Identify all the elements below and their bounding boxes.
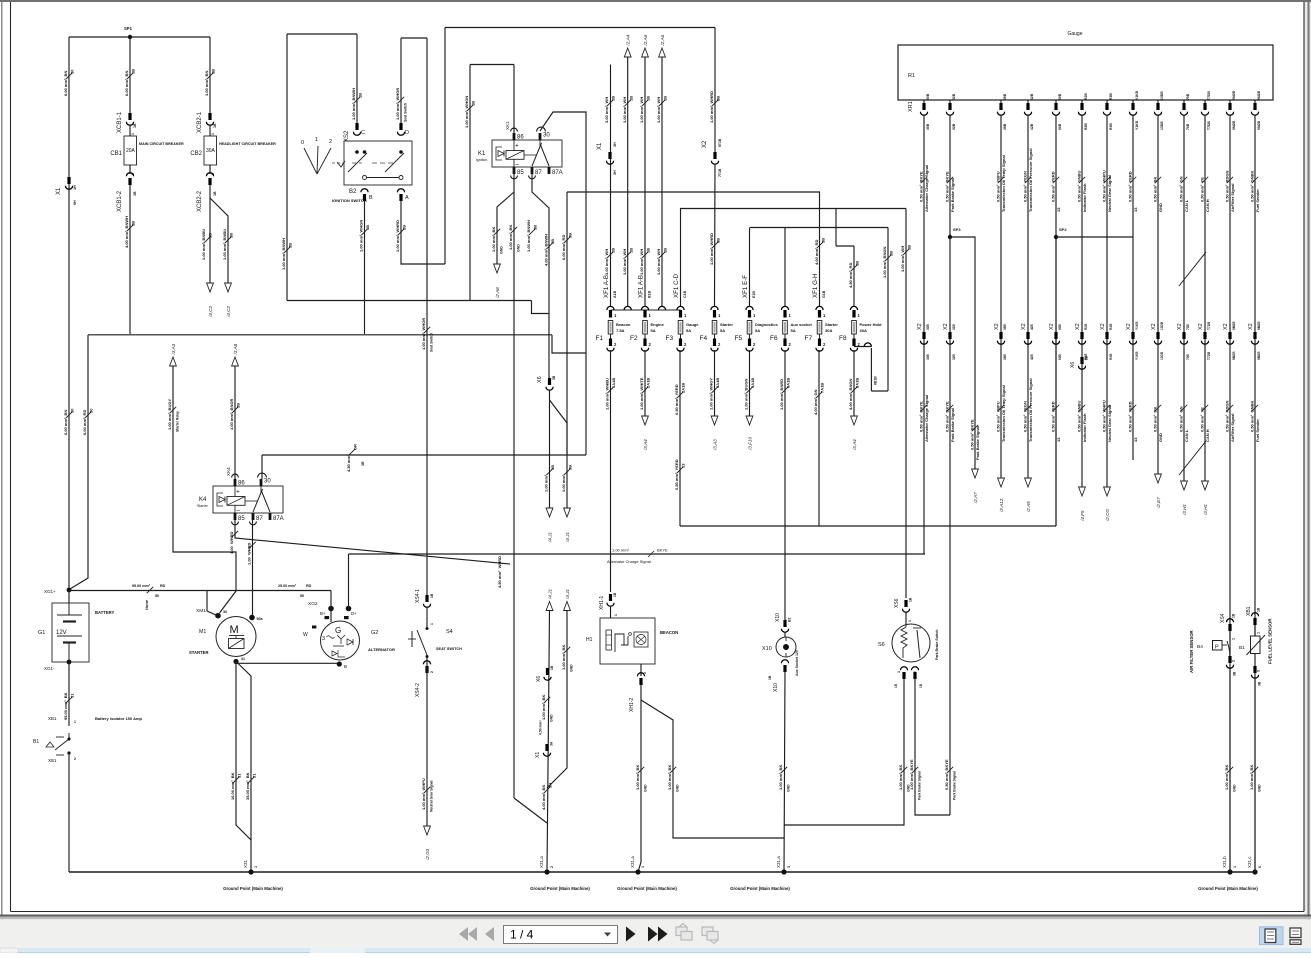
svg-text:6.00 mm² BN: 6.00 mm² BN [63,71,68,96]
fuse F1 Beacon 7.5A [608,321,613,335]
wire SP1 to XCB1-1 [129,37,131,115]
svg-text:BATTERY: BATTERY [95,610,115,615]
svg-text:1.00 WHRD: 1.00 WHRD [229,531,234,554]
svg-text:2: 2 [1257,670,1261,672]
svg-text:30: 30 [70,69,75,74]
svg-text:60B: 60B [1058,93,1062,100]
circuit breaker CB2 [204,136,217,165]
svg-text:Transmission Oil Pressure Sign: Transmission Oil Pressure Signal [1028,148,1033,212]
svg-text:13: 13 [681,463,686,468]
svg-text:/2,A6: /2,A6 [660,34,665,46]
svg-text:None: None [144,599,149,610]
svg-text:1B: 1B [471,101,476,106]
svg-text:3B: 3B [889,251,894,256]
connector X2 col 1 [920,332,927,344]
wire F4 output [714,350,716,416]
svg-text:1.00 mm² BNWH: 1.00 mm² BNWH [351,88,356,120]
svg-text:1: 1 [131,133,135,135]
wire gauge signal GND [1157,115,1159,474]
svg-text:+: + [515,143,519,150]
wire F3 feed riser [680,209,682,307]
svg-text:87A: 87A [552,170,563,176]
connector XF1 lower arc F3 [677,348,684,352]
svg-text:3B: 3B [208,233,213,238]
beacon H1 internals [606,630,648,652]
svg-text:0.50 mm² YBPU: 0.50 mm² YBPU [995,401,1000,432]
connector XF1 pin F5 [748,310,751,318]
wire label ignition left rail [281,238,292,270]
wire F8 output link [854,346,871,348]
wire label S6 ground [898,765,907,790]
svg-text:B2: B2 [788,618,792,622]
connector XCB2-1 [206,113,213,125]
svg-text:0.50 mm² YE: 0.50 mm² YE [1199,407,1204,432]
svg-text:XS6: XS6 [894,598,900,608]
relay K4 pin 30 [260,479,263,486]
connector XR1 pin 36B [997,103,1004,115]
fuse F6 Aux socket 5A [783,321,788,335]
svg-text:X31: X31 [243,859,248,868]
svg-text:3B: 3B [550,465,555,470]
ground point X31,a [544,869,549,874]
wire F2 output [644,350,646,416]
svg-text:3B: 3B [1258,681,1262,686]
svg-text:1.00 mm² BK: 1.00 mm² BK [635,765,640,790]
svg-text:1.00 mm² BUGY: 1.00 mm² BUGY [167,399,172,430]
svg-text:GND: GND [1158,433,1163,442]
battery G1 12V [52,603,89,662]
button next page [626,927,636,942]
seat switch S4 symbol [408,627,429,658]
svg-text:9M2B: 9M2B [1257,120,1261,130]
svg-text:HEADLIGHT CIRCUIT BREAKER: HEADLIGHT CIRCUIT BREAKER [219,142,276,146]
svg-text:1.00 mm² BK: 1.00 mm² BK [561,645,566,670]
svg-text:1B: 1B [1232,613,1236,618]
wire label B wire [359,220,370,252]
svg-text:XM1: XM1 [196,608,206,614]
svg-text:0.50 mm² YERD: 0.50 mm² YERD [1050,401,1055,432]
wire label lower YERD 13 [1127,401,1138,442]
svg-text:Starter Relay: Starter Relay [176,411,180,432]
fuel level sender B1 symbol [1247,635,1266,655]
svg-text:9M2B: 9M2B [1257,351,1261,360]
svg-text:5A: 5A [791,328,796,333]
svg-text:Aux Socket 12V: Aux Socket 12V [795,649,799,676]
svg-text:1.00 mm² WH: 1.00 mm² WH [622,249,627,275]
wire label X6 branch [561,465,572,492]
alternator G2 circle [321,621,360,660]
wire F8 output [853,350,855,416]
svg-text:1.00 mm² BK: 1.00 mm² BK [541,695,546,720]
wire park brake switch drop [905,209,907,599]
svg-text:7.5A: 7.5A [616,328,625,333]
svg-text:3.00 mm² WH: 3.00 mm² WH [604,97,609,123]
svg-text:AirFilter Signal: AirFilter Signal [1230,414,1235,442]
wire label starter relay feed [167,399,176,430]
svg-text:3B: 3B [533,225,538,230]
wire K4-86 feed [234,366,236,479]
connector XF1 arc F6 [781,306,788,310]
wire K1-85 to ground join [514,798,547,823]
svg-text:Seat Switch: Seat Switch [404,103,408,122]
svg-text:Power Hold: Power Hold [860,322,883,327]
wire K4-87 to starter 50a [252,520,254,615]
wire SP3 branch [950,237,975,469]
connector X1 (battery rail) [65,177,72,189]
wire fuse F7 bottom pin [819,334,821,339]
svg-text:1B: 1B [550,665,554,670]
wire label battery negative [63,692,74,720]
wire label YEGN Transmission Oil Pressure Signal [1022,148,1033,212]
wire top run to X2 [445,27,715,29]
svg-text:H1: H1 [586,637,593,643]
off-page arrow /3,H1 a [1181,481,1188,516]
wire routing bottom run [680,525,1056,527]
svg-text:60B: 60B [1058,353,1062,360]
off-page arrow /2,A6 a [642,34,649,57]
svg-text:1: 1 [211,133,215,135]
svg-text:C: C [361,130,365,136]
connector XCB1-2 [126,173,133,185]
svg-text:1.00 mm² BN: 1.00 mm² BN [204,71,209,96]
connector XF1 pin F3 [679,310,682,318]
connector XF1 pin F7 [818,310,821,318]
svg-text:X31,b: X31,b [1222,856,1227,868]
svg-text:SP1: SP1 [124,26,133,31]
button last page [648,927,668,942]
feeder arc on bus 2 [658,306,665,310]
svg-text:R3B: R3B [1109,123,1113,130]
wire gauge signal Alternator Charge Signal [923,115,925,554]
wire X2 feed [714,28,716,154]
wire feeder A6b [661,57,663,307]
svg-text:1.00 mm² WHRD: 1.00 mm² WHRD [709,233,714,265]
svg-text:30B: 30B [926,123,930,130]
wire label F8 feed [848,261,859,288]
connector X2 col 4 [1024,332,1031,344]
svg-text:30B: 30B [926,93,930,100]
svg-text:36B: 36B [1003,123,1007,130]
svg-text:R2B: R2B [1084,123,1088,130]
svg-text:32B: 32B [952,123,956,130]
wire ground bus [69,871,1255,873]
svg-text:4.00 mm² GN: 4.00 mm² GN [813,389,818,415]
svg-text:XK4: XK4 [226,467,231,476]
page number input box [504,926,618,944]
svg-text:42B: 42B [1030,123,1034,130]
wire label headlight left [201,229,212,260]
svg-text:6: 6 [1258,866,1262,868]
wire K1-30 riser [540,112,586,353]
svg-text:4.00 mm² RD: 4.00 mm² RD [814,240,819,265]
svg-text:XB1: XB1 [1246,606,1252,616]
svg-text:70B: 70B [1186,123,1190,130]
svg-text:25.00 mm²: 25.00 mm² [278,584,297,588]
off-page arrow /4,J1 down a [546,508,553,543]
svg-text:1.00 mm² BNBU: 1.00 mm² BNBU [201,229,206,260]
terminal starter 31 [233,659,238,664]
connector XR1 pin 9M2B [1226,103,1233,115]
svg-text:0.50 mm² BKYE: 0.50 mm² BKYE [969,419,974,450]
wire label feeder A4 2 [622,248,633,275]
connector XF1 lower pin F1 [609,339,612,347]
wire seat switch top link [401,37,427,39]
svg-text:9M2B: 9M2B [1232,351,1236,360]
svg-text:1.00 mm² WH: 1.00 mm² WH [639,97,644,123]
svg-text:R2B: R2B [1084,93,1088,100]
svg-text:6.00 mm² BN: 6.00 mm² BN [124,71,129,96]
svg-text:R3B: R3B [1109,93,1113,100]
connector X2 col 5 [1052,332,1059,344]
off-page arrow /3,A3 F4 [711,416,718,451]
relay K1 pin 30 [539,133,542,140]
off-page arrow /2,A12 [998,478,1005,513]
wire XB1 to B1 [1254,625,1256,636]
svg-text:Park Brake Signal: Park Brake Signal [950,408,955,442]
alternator internals [322,626,353,657]
air filter sensor B4 symbol [1213,641,1230,657]
connector XF1 pin F4 [713,310,716,318]
connector XF1 lower arc F7 [816,348,823,352]
wire CB2 to XCB2-2 [209,165,211,174]
wire starter ground a [236,662,251,873]
svg-text:/3,A3: /3,A3 [712,439,717,451]
svg-text:1B: 1B [909,597,913,602]
off-page arrow /2,A5 [1025,478,1032,513]
relay K4 pin 86 [234,479,237,486]
svg-text:K1: K1 [478,151,486,157]
wire label K1-85 branch [491,227,500,252]
wire beacon ground pin [640,664,642,676]
connector B1 bottom [1251,666,1258,678]
svg-text:Ground Point (Main Machine): Ground Point (Main Machine) [530,886,590,891]
svg-text:B+: B+ [320,611,326,616]
wire label YERD 13 [1050,171,1061,212]
svg-text:1.00 mm² WHGN: 1.00 mm² WHGN [464,96,469,128]
svg-text:R1: R1 [908,73,915,79]
svg-text:+: + [236,489,240,496]
park brake switch S6 circle [892,624,930,662]
toolbar background [0,919,1311,948]
svg-text:87: 87 [256,516,263,522]
svg-text:Ground Point (Main Machine): Ground Point (Main Machine) [730,886,790,891]
connector X2 col 8 [1129,332,1136,344]
connector XF1 arc F7 [816,306,823,310]
wire label starter ground a [230,772,241,800]
node SP2 [1054,235,1058,239]
wire gauge signal Transmission Oil Pressure Signal [1027,115,1029,478]
svg-text:XCB1-1: XCB1-1 [117,111,123,133]
svg-text:GND: GND [570,664,574,672]
svg-text:3B: 3B [568,465,573,470]
relay K1 labels [476,121,563,176]
connector XF1 lower pin F4 [713,339,716,347]
wire F5 output [749,350,751,416]
svg-text:4.50 mm² RD: 4.50 mm² RD [848,263,853,288]
wire label CB1 output [124,216,135,248]
node XG1- [67,660,72,665]
svg-text:/3,H1: /3,H1 [1182,504,1187,516]
svg-text:X2: X2 [1075,323,1081,330]
svg-text:1B: 1B [646,248,651,253]
svg-text:XR1: XR1 [908,101,914,112]
svg-text:Transmission Oil Pressure Sign: Transmission Oil Pressure Signal [1028,378,1033,442]
svg-text:30: 30 [543,133,550,139]
wire top supply bus [69,36,210,38]
svg-text:1B: 1B [213,123,217,128]
svg-text:3B: 3B [550,239,555,244]
svg-text:3B: 3B [211,69,216,74]
connector XF1 pin F1 [609,310,612,318]
wire K4-30 run [262,454,586,456]
wire label F7 feed [814,238,825,265]
connector XS2-C [353,123,360,135]
twisted pair slash lower [1179,441,1206,475]
connector X2 col 7 [1103,332,1110,344]
wire mid bus drop to battery [70,335,88,589]
svg-text:Park Brake Signal: Park Brake Signal [975,426,980,460]
wire label mid ground a [541,695,550,720]
svg-text:1.00 mm² WHITE: 1.00 mm² WHITE [639,377,644,410]
off-page arrow /3,A3 feed [170,343,177,366]
off-page arrow /4,J1 up a [546,589,553,611]
wire label park brake col bottom [944,759,953,790]
wire label mid ground b [541,783,552,810]
svg-text:Neutral Gear Signal: Neutral Gear Signal [1107,405,1112,442]
svg-text:Alternator Charge Signal: Alternator Charge Signal [607,559,651,564]
svg-text:4.00 mm² BNWH: 4.00 mm² BNWH [544,234,549,266]
wire SP2 branch [1056,236,1133,238]
node XG1+ [67,588,72,593]
svg-text:X2: X2 [1223,323,1229,330]
connector XF1 lower arc F6 [781,348,788,352]
svg-text:M1: M1 [199,629,206,635]
wire label B4 ground [1224,765,1233,790]
svg-text:Park Brake Signal: Park Brake Signal [950,178,955,212]
wire label K1-87 [526,220,537,252]
svg-text:ignition: ignition [476,158,487,162]
svg-text:0.50 mm² BKYE: 0.50 mm² BKYE [944,401,949,432]
wire isolator to ground bus [68,753,70,872]
wire battery bus to B+ [330,591,332,623]
svg-text:5A1B: 5A1B [750,378,755,388]
wire X6 to off-page [549,390,551,508]
svg-text:50: 50 [155,594,159,598]
svg-text:1B: 1B [213,191,217,196]
svg-text:86: 86 [238,481,245,487]
wire battery top stub [68,590,70,603]
svg-text:3: 3 [897,671,901,673]
svg-text:42B: 42B [1030,353,1034,360]
svg-text:XF1 E-F: XF1 E-F [742,275,749,298]
wire label K4-85 [229,531,238,554]
button continuous view [1290,928,1301,944]
connector XR1 pin 30B [920,103,927,115]
wire to XS2-C [356,34,358,125]
wire label lower YEGN Transmission Oil Pressure Signal [1022,378,1033,442]
wire J1 return to ground [547,611,550,873]
svg-text:3B: 3B [361,461,365,466]
connector X2 mid [711,152,718,164]
wire fuse F2 bottom pin [644,334,646,339]
svg-text:3A: 3A [550,741,554,746]
svg-text:0.50 mm² YERD: 0.50 mm² YERD [1050,171,1055,202]
svg-text:16.00 mm² BK: 16.00 mm² BK [230,772,235,800]
svg-text:9M2B: 9M2B [1257,321,1261,330]
wire to XS2-D [400,38,402,125]
svg-text:/4,J1: /4,J1 [565,589,570,600]
wire X10 ground drop [784,671,785,872]
svg-text:1: 1 [315,137,318,143]
svg-text:6.00 mm² BN: 6.00 mm² BN [63,410,68,435]
wire fuse bus feed [610,65,612,307]
svg-text:1.00 mm² WHBU: 1.00 mm² WHBU [605,378,610,410]
svg-text:1.00 mm² BK: 1.00 mm² BK [491,227,496,252]
svg-text:1.00 mm² WH: 1.00 mm² WH [622,97,627,123]
svg-text:8T1B: 8T1B [718,138,722,147]
off-page arrow /4,F5 [1079,487,1086,522]
wire park brake feed top [680,208,906,210]
svg-text:AIR FILTER SENSOR: AIR FILTER SENSOR [1189,629,1194,673]
wire feeder A6a [644,57,646,306]
relay K4 pin 85 [234,513,237,520]
svg-text:E1B: E1B [752,291,756,298]
connector XR1 pin Y1KB [1129,103,1136,115]
svg-text:1: 1 [430,623,434,625]
svg-text:0.50 mm² RDGN: 0.50 mm² RDGN [1224,401,1229,432]
svg-text:3: 3 [787,866,791,868]
svg-text:4A1B: 4A1B [715,378,720,388]
svg-text:36B: 36B [1003,353,1007,360]
svg-text:1B: 1B [133,123,137,128]
input dropdown arrow [604,933,611,937]
wire feeder A4 [627,57,629,307]
svg-text:Y1KB: Y1KB [1135,90,1139,100]
wire label lower GNBU Indicator Flash [1076,401,1087,442]
svg-text:F4: F4 [700,335,708,342]
svg-text:1.00 mm² BUGN: 1.00 mm² BUGN [744,379,749,410]
button first page (disabled) [459,927,477,941]
svg-text:0.50 mm² GNBU: 0.50 mm² GNBU [1076,171,1081,202]
svg-text:/2,A4: /2,A4 [626,34,631,46]
wire label X1 feed [604,96,615,123]
connector X6 lower [544,668,551,680]
svg-text:2: 2 [329,139,332,145]
svg-text:1: 1 [254,866,258,868]
svg-text:/4,C2: /4,C2 [226,306,231,318]
svg-text:0.50 mm² GNBK: 0.50 mm² GNBK [1249,171,1254,202]
svg-text:RD: RD [160,584,166,588]
wire label lower GNBK Fuel Sender [1249,401,1260,442]
svg-text:ALTERNATOR: ALTERNATOR [368,647,395,652]
connector X2 col 12 [1226,332,1233,344]
wire F8 feed down [853,246,855,306]
svg-text:1B: 1B [131,69,136,74]
wire label X2 feed [709,91,720,123]
connector XS4-2 [423,661,430,673]
wire F3 output drop [679,350,681,526]
svg-text:/2,A8: /2,A8 [495,287,500,299]
svg-text:32B: 32B [952,93,956,100]
wire label RD feed [561,233,572,260]
wire battery negative down [68,662,70,726]
svg-text:13: 13 [1133,207,1138,212]
wire label lower WHPU Neutral Gear Signal [1101,400,1112,442]
connector X2 col 9 [1154,332,1161,344]
wire K1-86 down to C rail [469,65,471,301]
svg-text:Indicator Flash: Indicator Flash [1082,183,1087,212]
wire B2-A down [401,200,445,264]
